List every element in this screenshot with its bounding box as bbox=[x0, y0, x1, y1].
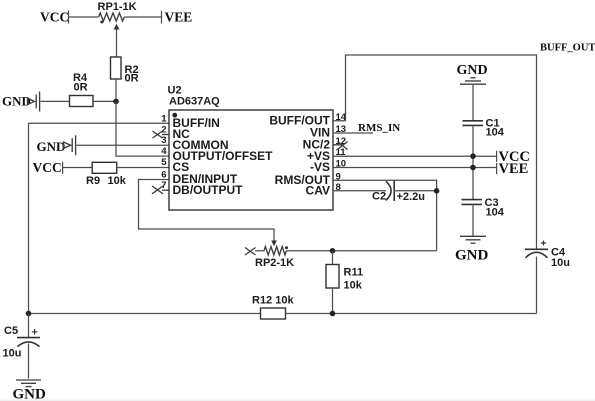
svg-text:VCC: VCC bbox=[33, 160, 62, 175]
svg-text:4: 4 bbox=[161, 146, 167, 157]
wire R4 to junction bbox=[93, 100, 116, 102]
power port VEE right bbox=[497, 161, 529, 177]
capacitor C5 10u bbox=[3, 314, 41, 379]
wire pin 1 and left bus bbox=[29, 123, 170, 313]
wire RP2 to R11/pin9 column bbox=[286, 250, 436, 252]
svg-text:AD637AQ: AD637AQ bbox=[169, 96, 220, 108]
wire pin 11 +VS to VCC bbox=[333, 155, 497, 157]
wire R2 to junction bbox=[115, 79, 117, 101]
svg-text:BUFF_OUT: BUFF_OUT bbox=[540, 43, 595, 54]
wire GND to R4 bbox=[41, 100, 70, 102]
resistor R2 0R bbox=[111, 57, 139, 85]
svg-text:+2.2u: +2.2u bbox=[397, 191, 425, 203]
node junction VCC row bbox=[470, 153, 476, 159]
wire pin 10 -VS to VEE bbox=[333, 167, 497, 169]
node junction C5/bottom bbox=[26, 311, 32, 317]
power port VCC right bbox=[497, 149, 530, 165]
IC U2 AD637AQ bbox=[161, 85, 347, 211]
svg-text:GND: GND bbox=[457, 63, 488, 78]
svg-text:104: 104 bbox=[486, 127, 505, 139]
wire pin 9 to RP2 row bbox=[333, 180, 437, 251]
svg-text:DB/OUTPUT: DB/OUTPUT bbox=[173, 183, 244, 197]
potentiometer RP2-1K bbox=[245, 246, 294, 269]
node junction pin8/pin9 column bbox=[434, 188, 440, 194]
resistor R12 10k bbox=[252, 295, 294, 320]
no-connect X pin 2 bbox=[153, 131, 170, 138]
svg-text:RP1-1K: RP1-1K bbox=[98, 1, 137, 13]
wire pin 13 RMS_IN bbox=[333, 132, 373, 134]
resistor R9 10k bbox=[86, 162, 127, 187]
no-connect X pin 12 bbox=[333, 142, 348, 150]
svg-text:5: 5 bbox=[161, 157, 167, 168]
svg-text:C2: C2 bbox=[372, 191, 386, 203]
wire GND to pin 3 bbox=[77, 144, 170, 146]
node junction VEE row bbox=[470, 165, 476, 171]
capacitor C3 104 bbox=[462, 197, 505, 219]
svg-text:10u: 10u bbox=[551, 257, 570, 269]
svg-text:GND: GND bbox=[37, 139, 66, 154]
svg-text:CAV: CAV bbox=[306, 183, 330, 197]
wire VCC to R9 bbox=[63, 167, 93, 169]
power port VCC (pin 5 row) bbox=[33, 160, 63, 175]
svg-text:0R: 0R bbox=[125, 73, 139, 85]
ground GND (pin 3 row, bar style) bbox=[37, 135, 76, 155]
wire C3 to ground bbox=[472, 204, 474, 236]
svg-text:RMS_IN: RMS_IN bbox=[358, 122, 400, 134]
svg-text:1: 1 bbox=[161, 113, 167, 124]
ground GND (R4 row, bar style) bbox=[2, 92, 40, 112]
ground GND (below C5) bbox=[13, 380, 47, 401]
svg-text:104: 104 bbox=[486, 207, 505, 219]
svg-text:10u: 10u bbox=[3, 348, 22, 360]
node junction R11/bottom bbox=[330, 311, 336, 317]
svg-text:RP2-1K: RP2-1K bbox=[255, 257, 294, 269]
svg-text:VCC: VCC bbox=[40, 10, 69, 25]
svg-text:6: 6 bbox=[161, 169, 166, 180]
capacitor C1 104 bbox=[463, 117, 505, 138]
wire RP1 to VEE bbox=[124, 16, 161, 18]
power port VEE bbox=[162, 10, 193, 25]
wire junction down to pin 4 bbox=[116, 101, 169, 156]
svg-text:GND: GND bbox=[455, 248, 489, 264]
node junction R2/R4 bbox=[113, 99, 119, 105]
ground GND top (above C1) bbox=[457, 63, 488, 84]
ground GND (below C3) bbox=[455, 236, 489, 263]
wire GND to C1 bbox=[472, 85, 474, 120]
wire C2 to junction bbox=[394, 190, 436, 192]
capacitor C2 +2.2u bbox=[372, 181, 425, 203]
potentiometer RP1-1K bbox=[98, 1, 137, 57]
svg-text:R12 10k: R12 10k bbox=[252, 295, 294, 307]
wire pin 8 through C2 bbox=[333, 190, 386, 192]
svg-text:VEE: VEE bbox=[499, 161, 529, 177]
no-connect X pin 7 bbox=[152, 186, 169, 194]
resistor R4 0R bbox=[70, 72, 94, 107]
wire pin 14 riser and top rail BUFF_OUT bbox=[333, 55, 537, 249]
svg-text:10k: 10k bbox=[108, 175, 127, 187]
power port VCC top-left bbox=[40, 10, 69, 25]
svg-text:0R: 0R bbox=[74, 82, 88, 94]
wire R9 to pin 5 bbox=[117, 167, 169, 169]
svg-text:VEE: VEE bbox=[165, 10, 193, 25]
svg-text:GND: GND bbox=[13, 387, 47, 401]
svg-text:10k: 10k bbox=[344, 280, 363, 292]
svg-text:-VS: -VS bbox=[310, 160, 330, 174]
wire C4 to bottom rail bbox=[536, 257, 538, 314]
svg-text:C5: C5 bbox=[4, 325, 18, 337]
node junction RP2/R11 bbox=[330, 248, 336, 254]
capacitor C4 10u bbox=[525, 241, 570, 270]
svg-text:R9: R9 bbox=[86, 175, 100, 187]
resistor R11 10k bbox=[326, 251, 363, 314]
bottom rail with R12 bbox=[29, 313, 261, 315]
svg-text:R11: R11 bbox=[344, 267, 364, 279]
bottom scan edge bbox=[0, 400, 595, 401]
wire VCC to RP1 bbox=[69, 16, 99, 18]
svg-text:GND: GND bbox=[2, 94, 31, 109]
wire C1 to VCC/VEE rows bbox=[472, 125, 474, 199]
wire pin 6 path to RP2 wiper bbox=[139, 180, 275, 242]
